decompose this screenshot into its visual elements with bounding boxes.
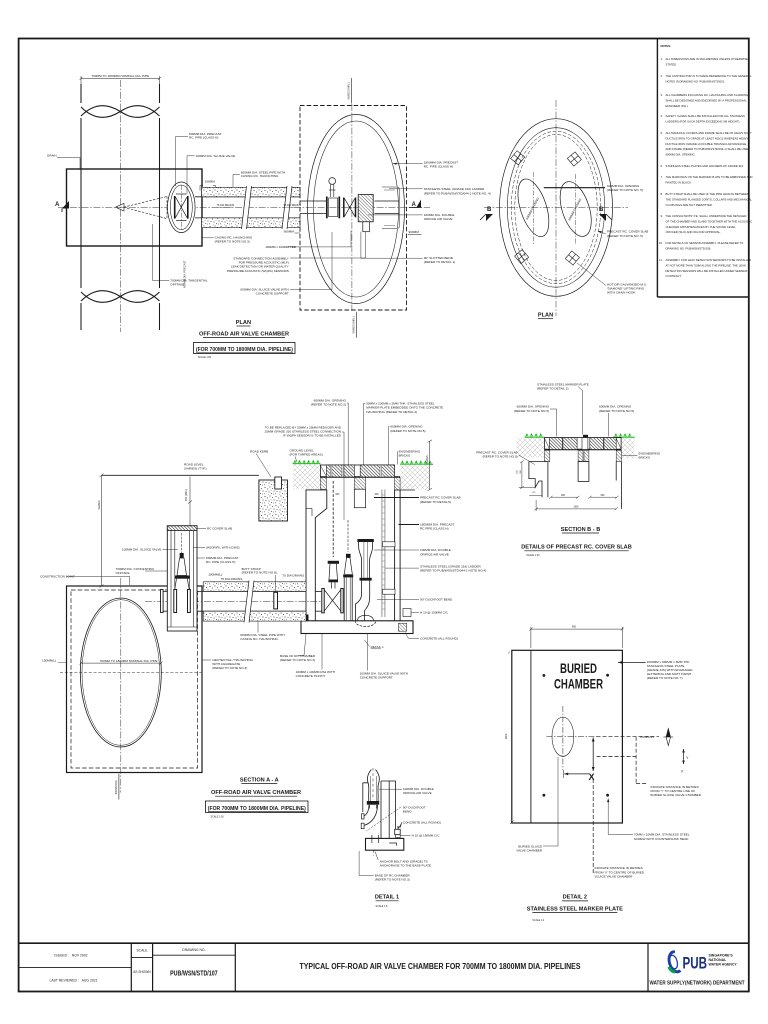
svg-text:PUB/WSN/STD/107: PUB/WSN/STD/107 <box>170 969 218 978</box>
concentric cover slab ellipses <box>500 119 613 297</box>
svg-text:SLUICE VALVE CHAMBER: SLUICE VALVE CHAMBER <box>595 874 634 878</box>
75 dia drain labels on pipe <box>217 204 302 207</box>
right support column <box>381 781 396 838</box>
svg-text:BUTT STRAP SHALL BE USED IF TH: BUTT STRAP SHALL BE USED IF THE PIPE LEN… <box>666 192 749 196</box>
break marks <box>242 186 293 229</box>
svg-text:100MM: 100MM <box>205 179 216 183</box>
svg-text:FOR DETAILS OF SENSOR ASSEMBLY: FOR DETAILS OF SENSOR ASSEMBLY, PLEASE R… <box>666 241 745 245</box>
svg-text:75 DIA DRAINS: 75 DIA DRAINS <box>221 577 243 581</box>
svg-text:STAINLESS STEEL PLATES AND HOL: STAINLESS STEEL PLATES AND HOLDERS OF GR… <box>666 164 745 168</box>
svg-text:1600: 1600 <box>573 507 579 509</box>
svg-text:(REFER TO NOTE NO.5): (REFER TO NOTE NO.5) <box>599 409 634 413</box>
svg-text:(REFER TO NOTE NO.5): (REFER TO NOTE NO.5) <box>390 429 425 433</box>
svg-text:VARIES: VARIES <box>425 455 429 465</box>
slab band <box>545 435 622 450</box>
svg-text:8.: 8. <box>661 192 664 196</box>
air valve bell <box>361 768 404 856</box>
svg-text:(REFER TO NOTE NO.3): (REFER TO NOTE NO.3) <box>212 666 247 670</box>
left label <box>476 451 517 459</box>
svg-text:(REFER TO NOTE NO.8): (REFER TO NOTE NO.8) <box>242 571 277 575</box>
svg-text:SCREW WITH COUNTERSUNK HEAD: SCREW WITH COUNTERSUNK HEAD <box>634 837 689 841</box>
svg-text:PLAN: PLAN <box>538 313 553 319</box>
svg-text:THE CONTRACTOR IS TO MAKE REFE: THE CONTRACTOR IS TO MAKE REFERENCE TO T… <box>666 74 752 78</box>
svg-text:IF WQPA SENSOR IS TO BE INSTAL: IF WQPA SENSOR IS TO BE INSTALLED <box>283 434 342 438</box>
road level line <box>102 474 259 476</box>
svg-text:H 10 @ 150MM C/C: H 10 @ 150MM C/C <box>412 834 441 838</box>
svg-text:WATER AGENCY: WATER AGENCY <box>709 963 738 967</box>
svg-text:DETECTION SENSORS WILL BE INST: DETECTION SENSORS WILL BE INSTALLED UNDE… <box>666 269 750 273</box>
100MM bracket marks <box>200 186 216 191</box>
dims <box>519 460 619 511</box>
svg-text:600MM DIA. OPENING.: 600MM DIA. OPENING. <box>666 153 696 157</box>
svg-text:(REFER TO NOTE NO.3): (REFER TO NOTE NO.3) <box>280 658 315 662</box>
flange on left pipe from tank <box>161 590 164 613</box>
svg-text:7.: 7. <box>661 175 664 179</box>
svg-text:DRAWING NO. PUB/WSN/STD/108.: DRAWING NO. PUB/WSN/STD/108. <box>666 246 712 250</box>
puddle flange boxes on right wall <box>383 542 396 547</box>
svg-text:NOTES IN DRAWING NO. PUB/WSN/S: NOTES IN DRAWING NO. PUB/WSN/STD/001. <box>666 79 726 83</box>
dashed chamber box <box>300 106 407 311</box>
svg-text:(VARIES) (TYP.): (VARIES) (TYP.) <box>184 467 207 471</box>
svg-text:CONCRETE (ALL ROUND): CONCRETE (ALL ROUND) <box>403 821 441 825</box>
svg-text:100MM DIA. SLUICE VALVE: 100MM DIA. SLUICE VALVE <box>196 154 236 158</box>
svg-text:(FOR 700MM TO 1800MM DIA. PIPE: (FOR 700MM TO 1800MM DIA. PIPELINE) <box>196 347 293 353</box>
svg-text:(REFER TO PUB/WSN/STD/044-1 NO: (REFER TO PUB/WSN/STD/044-1 NOTE NO. 4) <box>424 191 491 195</box>
svg-text:ASSEMBLY FOR LEAK DETECTION SE: ASSEMBLY FOR LEAK DETECTION SENSORS TO B… <box>666 258 752 262</box>
svg-text:SCALE 1:50: SCALE 1:50 <box>211 816 225 819</box>
svg-text:PAINTED IN BLACK.: PAINTED IN BLACK. <box>666 180 692 184</box>
svg-text:600MM DIA.: 600MM DIA. <box>114 780 118 795</box>
svg-text:5.: 5. <box>661 131 664 135</box>
svg-text:RC. PIPE (CLASS H): RC. PIPE (CLASS H) <box>424 165 453 169</box>
svg-text:(W)ORIFIL WITH (GMS): (W)ORIFIL WITH (GMS) <box>206 546 240 550</box>
svg-text:OFF-ROAD AIR VALVE CHAMBER: OFF-ROAD AIR VALVE CHAMBER <box>211 790 301 796</box>
svg-text:(REFER TO PUB/WSN/STD/044-1 NO: (REFER TO PUB/WSN/STD/044-1 NOTE NO.4) <box>420 569 486 573</box>
svg-text:AT NOT MORE THAN 700M ALONG TH: AT NOT MORE THAN 700M ALONG THE PIPELINE… <box>666 263 746 267</box>
svg-text:(REFER TO DETAILS): (REFER TO DETAILS) <box>420 500 451 504</box>
svg-text:ALL DIMENSIONS ARE IN MILLIMET: ALL DIMENSIONS ARE IN MILLIMETRES UNLESS… <box>666 57 749 61</box>
svg-text:CONCRETE (ALL ROUND): CONCRETE (ALL ROUND) <box>420 636 458 640</box>
svg-text:100MM(L): 100MM(L) <box>208 572 222 576</box>
svg-text:B: B <box>487 207 492 213</box>
svg-text:BURIED: BURIED <box>560 661 597 676</box>
svg-text:ORIFICE AIR VALVE: ORIFICE AIR VALVE <box>403 791 432 795</box>
svg-text:SECTION A - A: SECTION A - A <box>240 778 279 784</box>
grass <box>524 436 634 438</box>
chamber rectangle (plan) <box>67 169 203 246</box>
svg-text:CONCRETE PLINTH: CONCRETE PLINTH <box>296 674 325 678</box>
left corbel+wall <box>306 490 327 621</box>
left gate valve on horizontal pipe <box>315 481 343 613</box>
svg-text:ISSUED : NOV 2002: ISSUED : NOV 2002 <box>54 954 87 958</box>
svg-text:600MM DIA. PRECAST: 600MM DIA. PRECAST <box>183 260 187 288</box>
svg-text:(REFER TO NOTE NO. 5): (REFER TO NOTE NO. 5) <box>607 188 643 192</box>
svg-text:2.: 2. <box>661 74 664 78</box>
svg-text:ROAD KERB: ROAD KERB <box>250 450 268 454</box>
svg-text:4.: 4. <box>661 114 664 118</box>
svg-text:(FOR 700MM TO 1800MM DIA. PIPE: (FOR 700MM TO 1800MM DIA. PIPELINE) <box>208 806 306 812</box>
svg-text:(FOR TURFED AREAS): (FOR TURFED AREAS) <box>290 453 323 457</box>
svg-text:OFFTAKE: OFFTAKE <box>116 571 130 575</box>
svg-text:STAINLESS STEEL MARKER PLATE: STAINLESS STEEL MARKER PLATE <box>527 906 623 912</box>
opening ellipses <box>512 175 555 240</box>
svg-text:SCALE 1:2: SCALE 1:2 <box>532 919 544 922</box>
svg-text:SECTION B - B: SECTION B - B <box>561 527 600 533</box>
base slab <box>366 838 404 850</box>
svg-text:OFFICER (SLO) AND IDA FOR APPR: OFFICER (SLO) AND IDA FOR APPROVAL. <box>666 230 721 234</box>
labels right <box>544 187 605 189</box>
svg-text:DETAIL 2: DETAIL 2 <box>563 895 587 901</box>
svg-text:700MM TO 1800MM NOMINAL DIA. P: 700MM TO 1800MM NOMINAL DIA. PIPE <box>91 74 149 78</box>
svg-text:SINGAPORE'S: SINGAPORE'S <box>709 954 734 958</box>
svg-text:SCALE 1:20: SCALE 1:20 <box>526 554 540 557</box>
pipe break curves top <box>81 106 160 118</box>
valve inside enclosure <box>174 533 191 613</box>
XY axis <box>683 749 685 764</box>
road kerb stipple block <box>259 480 288 521</box>
pipe centerline <box>119 80 121 332</box>
svg-text:(REFER TO DETAIL 1): (REFER TO DETAIL 1) <box>424 260 456 264</box>
svg-text:ORIFICE AIR VALVE: ORIFICE AIR VALVE <box>420 552 449 556</box>
svg-text:WATER SUPPLY(NETWORK) DEPARTME: WATER SUPPLY(NETWORK) DEPARTMENT <box>650 981 745 987</box>
svg-text:A: A <box>55 202 60 208</box>
tank centerlines <box>120 578 122 793</box>
right VARIES dim <box>429 441 431 490</box>
svg-text:THE MARKINGS ON THE MARKER PLA: THE MARKINGS ON THE MARKER PLATE TO BE E… <box>666 175 753 179</box>
bend curving left <box>364 805 378 826</box>
svg-text:OF THE CHAMBER AND SLABS TOGET: OF THE CHAMBER AND SLABS TOGETHER WITH T… <box>666 219 753 223</box>
ladder <box>382 490 385 618</box>
svg-text:BRICKS: BRICKS <box>399 453 411 457</box>
svg-text:3.: 3. <box>661 93 664 97</box>
svg-text:SCALE 1:50: SCALE 1:50 <box>198 356 212 359</box>
svg-text:WITH CHAIN HOOK: WITH CHAIN HOOK <box>607 291 636 295</box>
svg-text:RC. PIPE (CLASS H): RC. PIPE (CLASS H) <box>206 560 235 564</box>
main centerline horizontal <box>58 206 430 208</box>
svg-text:DETAIL 1: DETAIL 1 <box>375 895 399 901</box>
pipe through chamber <box>300 201 400 214</box>
drawing content groups are appended below <box>47 74 430 359</box>
vertical pipe (700-1800 dia) <box>81 84 160 330</box>
svg-text:HAUNCHING (REFER TO DETAIL 2): HAUNCHING (REFER TO DETAIL 2) <box>366 410 417 414</box>
bricks below slab <box>545 450 550 461</box>
chamber ellipses <box>308 115 405 304</box>
svg-text:CONTRACT.: CONTRACT. <box>666 274 682 278</box>
svg-text:CHAMBER: CHAMBER <box>554 677 603 692</box>
svg-text:75 DIA DRAINS: 75 DIA DRAINS <box>282 573 304 577</box>
svg-text:(REFER TO NOTE NO. 7): (REFER TO NOTE NO. 7) <box>647 676 683 680</box>
svg-text:STATED.: STATED. <box>666 62 678 66</box>
svg-text:DRAWING NO.: DRAWING NO. <box>182 948 205 952</box>
vertical centerline <box>351 104 353 311</box>
break marks <box>244 581 254 623</box>
right air valve + duckfoot <box>355 539 376 626</box>
svg-text:9.: 9. <box>661 214 664 218</box>
air valve box (hatched) <box>358 195 373 222</box>
svg-text:75 DIA DRAINS: 75 DIA DRAINS <box>284 204 302 207</box>
left valve assembly (sluice valve w/ spindle) <box>327 178 340 219</box>
svg-text:(REFER TO NOTE NO. 5): (REFER TO NOTE NO. 5) <box>607 234 643 238</box>
A section marker left <box>55 201 69 212</box>
svg-text:75 DIA DRAINS: 75 DIA DRAINS <box>217 204 235 207</box>
pipe to right with concrete haunching <box>195 197 300 218</box>
svg-text:DETAILS OF PRECAST RC. COVER S: DETAILS OF PRECAST RC. COVER SLAB <box>521 545 632 551</box>
plate rect <box>512 650 623 823</box>
valve chamber small ellipses <box>168 182 196 233</box>
svg-text:PRESSURE ACOUSTIC (WQPA) SENSO: PRESSURE ACOUSTIC (WQPA) SENSORS <box>227 269 289 273</box>
svg-text:CHECKER APPURTENANCES BY THE S: CHECKER APPURTENANCES BY THE SOUND LEVEL <box>666 225 737 229</box>
svg-text:BURIED SLUICE VALVE CHAMBER: BURIED SLUICE VALVE CHAMBER <box>651 793 702 797</box>
centerlines <box>484 207 628 209</box>
svg-text:DRAIN: DRAIN <box>47 154 57 158</box>
svg-text:10.: 10. <box>659 241 663 245</box>
svg-text:CASING RC. HAUNCHING: CASING RC. HAUNCHING <box>241 174 279 178</box>
top dim 900 <box>529 627 624 648</box>
svg-text:PLAN: PLAN <box>236 320 251 326</box>
svg-text:DUCTILE IRON (GRADE H) DOUBLE: DUCTILE IRON (GRADE H) DOUBLE TRIANGULAR… <box>666 142 747 146</box>
svg-text:THE STANDARD FLANGED JOINTS, C: THE STANDARD FLANGED JOINTS, COLLARS AND… <box>666 197 753 201</box>
svg-text:LADDERS (FOR SUCH DEPTH EXCEED: LADDERS (FOR SUCH DEPTH EXCEEDING 3M HEI… <box>666 119 741 123</box>
svg-text:11.: 11. <box>659 258 663 262</box>
tank: outer rect <box>67 586 203 773</box>
svg-text:(REFER TO NOTE NO.3): (REFER TO NOTE NO.3) <box>375 878 410 882</box>
tank: pipe ellipse (double) <box>80 598 161 747</box>
dowel box right wall <box>403 609 411 617</box>
600 opening labels <box>514 405 550 413</box>
svg-text:NOTES:: NOTES: <box>661 44 672 48</box>
svg-text:BRICKS: BRICKS <box>639 455 651 459</box>
svg-text:CONCRETE SUPPORT: CONCRETE SUPPORT <box>256 292 289 296</box>
tank: inner dashed rect <box>71 590 198 768</box>
svg-text:CASING RC. HAUNCHING: CASING RC. HAUNCHING <box>240 637 278 641</box>
dashed leader lines <box>592 779 594 875</box>
svg-text:OFFTAKE: OFFTAKE <box>170 283 184 287</box>
butt strap <box>274 592 278 609</box>
middle riser valve <box>343 520 353 620</box>
svg-text:ALL MANHOLE COVERS AND FRAME S: ALL MANHOLE COVERS AND FRAME SHALL BE OF… <box>666 131 752 135</box>
svg-text:150 (MIN.): 150 (MIN.) <box>184 489 188 501</box>
soil <box>517 438 545 458</box>
svg-text:VARIES: VARIES <box>97 500 101 510</box>
ladder plan (gray bracket) <box>382 187 400 229</box>
svg-text:DUCTILE IRON TO GRADE AT LEAST: DUCTILE IRON TO GRADE AT LEAST 400/12 WH… <box>666 136 749 140</box>
dimension 700-1800 nominal dia pipe (top) <box>80 76 162 84</box>
svg-text:COUPLINGS ARE NOT PERMITTED.: COUPLINGS ARE NOT PERMITTED. <box>666 203 713 207</box>
svg-text:TYPICAL OFF-ROAD AIR VALVE CHA: TYPICAL OFF-ROAD AIR VALVE CHAMBER FOR 7… <box>300 962 582 971</box>
svg-text:RC PIPE (CLASS H): RC PIPE (CLASS H) <box>420 527 449 531</box>
svg-text:900: 900 <box>572 626 577 629</box>
supports <box>529 462 622 509</box>
svg-text:6.: 6. <box>661 164 664 168</box>
svg-text:SHALL BE DESIGNED AND ENDORSED: SHALL BE DESIGNED AND ENDORSED BY A PROF… <box>666 98 748 102</box>
svg-text:(REFER TO DETAIL 2): (REFER TO DETAIL 2) <box>537 387 569 391</box>
svg-text:700MM TO 1800MM NOMINAL DIA. P: 700MM TO 1800MM NOMINAL DIA. PIPE <box>100 659 158 663</box>
svg-text:(REFER TO NOTE NO.5): (REFER TO NOTE NO.5) <box>514 409 549 413</box>
svg-text:VARIES (MIN.): VARIES (MIN.) <box>347 82 351 99</box>
svg-text:(REFER TO NOTE NO.3): (REFER TO NOTE NO.3) <box>215 239 250 243</box>
screws <box>543 674 546 677</box>
PUB logo <box>650 951 745 986</box>
svg-text:SAFETY CAGES SHALL BE INSTALLE: SAFETY CAGES SHALL BE INSTALLED FOR ALL … <box>666 114 746 118</box>
engineering bricks under slab <box>320 478 326 490</box>
svg-text:AS SHOWN: AS SHOWN <box>133 970 151 974</box>
svg-text:ALL CHAMBERS INCLUDING RC, HAU: ALL CHAMBERS INCLUDING RC, HAUNCHING AND… <box>666 93 749 97</box>
enclosing wall left + top <box>363 783 368 812</box>
svg-text:SCALE: SCALE <box>136 949 148 953</box>
svg-text:THE CONSULTANTS' P.E. SHALL UN: THE CONSULTANTS' P.E. SHALL UNDERTAKE TH… <box>666 214 747 218</box>
svg-text:LAST REVIEWED : AUG 2021: LAST REVIEWED : AUG 2021 <box>50 979 98 983</box>
anchor detail right <box>395 829 401 834</box>
sluice valve (plan) in circle <box>175 194 188 221</box>
svg-text:X: X <box>589 772 595 782</box>
dim through ellipse <box>81 662 161 664</box>
svg-text:CONCRETE SUPPORT: CONCRETE SUPPORT <box>360 676 393 680</box>
butterfly bowtie <box>344 198 356 218</box>
svg-text:B: B <box>599 207 604 213</box>
svg-text:900MM: 900MM <box>409 230 420 234</box>
right wall <box>394 490 396 621</box>
svg-text:150MM(L): 150MM(L) <box>42 659 56 663</box>
svg-text:RC COVER SLAB: RC COVER SLAB <box>207 527 232 531</box>
svg-text:RC. PIPE (CLASS H): RC. PIPE (CLASS H) <box>189 136 218 140</box>
left VARIES dim <box>101 475 103 586</box>
svg-text:VARIES (MIN.): VARIES (MIN.) <box>352 316 356 333</box>
svg-text:H 10 @ 150MM C/C: H 10 @ 150MM C/C <box>420 611 449 615</box>
pipe break curves bottom <box>81 291 160 303</box>
svg-text:1600: 1600 <box>505 733 508 739</box>
svg-text:PUB: PUB <box>683 955 708 973</box>
rotated text below tank <box>118 774 120 800</box>
svg-text:900MM: 900MM <box>284 229 295 233</box>
svg-text:COMPASS: COMPASS <box>640 735 654 739</box>
valve circle + crosshairs <box>552 717 574 756</box>
svg-text:ENGINEER (P.E.).: ENGINEER (P.E.). <box>666 104 689 108</box>
lifting ring symbols at 4 corners <box>511 151 582 265</box>
svg-text:NATIONAL: NATIONAL <box>709 958 728 962</box>
svg-text:ORIFICE AIR VALVE: ORIFICE AIR VALVE <box>424 217 453 221</box>
svg-text:100MM DIA. SLUICE VALVE: 100MM DIA. SLUICE VALVE <box>122 548 162 552</box>
soil cross hatch <box>293 464 320 489</box>
svg-text:BEND: BEND <box>403 810 412 814</box>
svg-text:AND FRAME (REFER TO PUB/WSN/ST: AND FRAME (REFER TO PUB/WSN/STD/044-1) S… <box>666 147 750 151</box>
svg-text:(REFER TO NOTE NO.5): (REFER TO NOTE NO.5) <box>482 455 517 459</box>
svg-text:SCALE 1:5: SCALE 1:5 <box>376 905 388 908</box>
svg-text:1.: 1. <box>661 57 664 61</box>
tangential cone (dashed) <box>124 197 168 219</box>
svg-text:90° DUCKFOOT BEND: 90° DUCKFOOT BEND <box>420 597 453 601</box>
floor slab <box>301 621 413 634</box>
svg-text:ANCHORAGE TO THE BASE PLATE: ANCHORAGE TO THE BASE PLATE <box>380 863 432 867</box>
svg-text:DETAIL 1: DETAIL 1 <box>371 645 384 649</box>
svg-text:VALVE CHAMBER: VALVE CHAMBER <box>516 848 543 852</box>
svg-text:OFF-ROAD AIR VALVE CHAMBER: OFF-ROAD AIR VALVE CHAMBER <box>199 332 289 338</box>
svg-text:(REFER TO NOTE NO.2): (REFER TO NOTE NO.2) <box>311 403 346 407</box>
